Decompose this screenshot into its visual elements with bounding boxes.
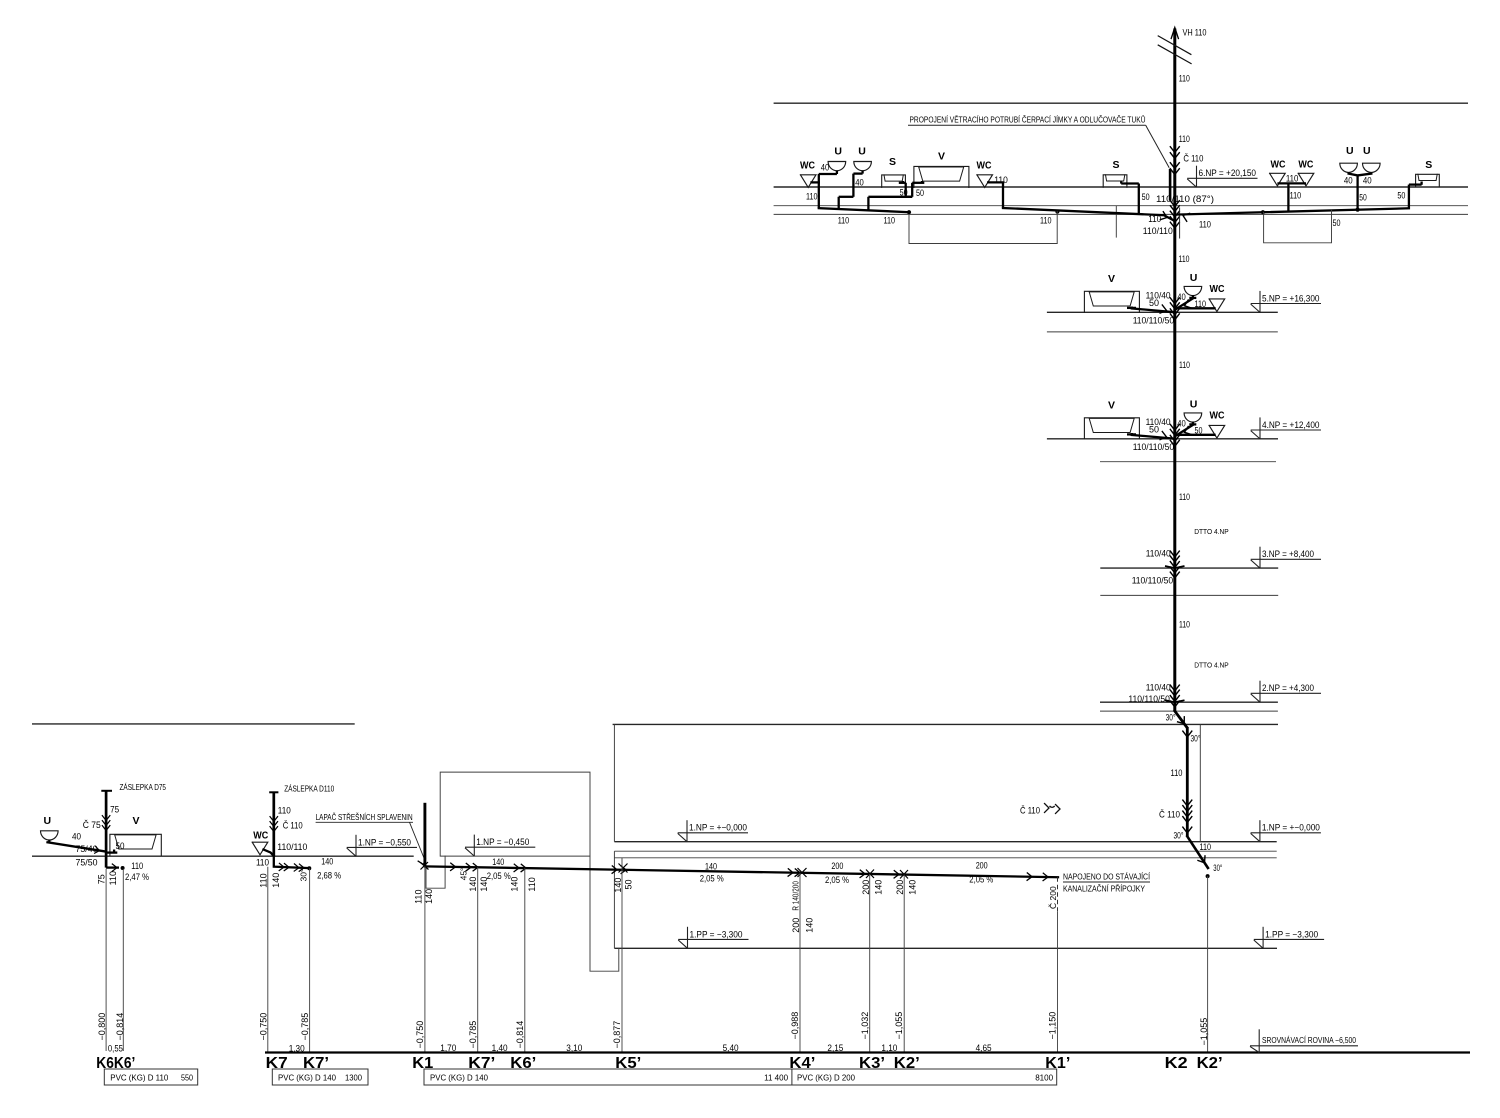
dim line K4': [799, 873, 801, 1053]
stack 30deg offset lower: [1187, 836, 1208, 868]
svg-text:40: 40: [821, 163, 830, 173]
note PROPOJENI leader: [908, 125, 1169, 168]
svg-text:110: 110: [108, 871, 118, 885]
fixture WC2 6.NP: [977, 160, 993, 187]
svg-text:30°: 30°: [1166, 713, 1176, 723]
svg-text:110: 110: [1195, 299, 1207, 309]
pipe U2 drain: [839, 171, 863, 209]
svg-text:2,15: 2,15: [827, 1043, 843, 1053]
level marker 1.NP right: [1251, 820, 1321, 842]
floor 1.NP top line: [614, 841, 1276, 843]
ceiling line 1.NP right: [613, 723, 1278, 725]
svg-text:110: 110: [1179, 620, 1190, 630]
junction dot K7': [307, 866, 311, 870]
svg-text:3,10: 3,10: [566, 1043, 582, 1053]
svg-text:−1,032: −1,032: [860, 1012, 870, 1040]
floor 4.NP bottom line: [1100, 461, 1276, 463]
svg-text:8100: 8100: [1035, 1073, 1053, 1083]
pipe S2 drain: [1409, 182, 1422, 209]
svg-text:NAPOJENO DO STÁVAJÍCÍ: NAPOJENO DO STÁVAJÍCÍ: [1063, 873, 1151, 882]
svg-text:110/110/50: 110/110/50: [1132, 576, 1174, 586]
fixture WC K7: [252, 831, 268, 855]
svg-text:2,05 %: 2,05 %: [700, 874, 724, 884]
svg-text:2,05 %: 2,05 %: [825, 875, 849, 885]
svg-text:110/40: 110/40: [1146, 682, 1171, 692]
svg-text:V: V: [133, 815, 140, 827]
note LAPAC text: [316, 813, 424, 858]
level marker 1.NP mid: [678, 820, 748, 842]
collector 6.NP left b: [1003, 208, 1174, 221]
floor 6.NP mid line: [774, 205, 1468, 207]
svg-text:110/110/50: 110/110/50: [1133, 442, 1175, 452]
svg-text:50: 50: [1397, 190, 1405, 200]
svg-text:200: 200: [791, 918, 801, 933]
dim line K6': [122, 869, 124, 1051]
svg-text:Č 110: Č 110: [1159, 809, 1180, 819]
svg-text:30°: 30°: [299, 869, 309, 882]
svg-text:2,47 %: 2,47 %: [125, 872, 149, 882]
collector 6.NP right: [1176, 208, 1409, 214]
fixture V tub K6: [110, 815, 161, 855]
stack K6: [105, 791, 108, 857]
floor 1.NP mid line: [614, 850, 1276, 852]
svg-text:50: 50: [1149, 425, 1159, 435]
floor 6.NP top line: [774, 186, 1468, 188]
collector 6.NP left a: [819, 208, 909, 212]
thin drop line 6NP: [1021, 214, 1023, 243]
svg-text:2.NP = +4,300: 2.NP = +4,300: [1262, 683, 1314, 693]
arrow offset lower: [1198, 856, 1205, 863]
pipe S1 drain: [899, 181, 906, 197]
svg-text:U: U: [1363, 145, 1371, 157]
svg-text:V: V: [1108, 273, 1115, 285]
box PVC K6: [104, 1069, 197, 1085]
dashed line K1': [1057, 877, 1059, 912]
level marker 1.NP -0550: [347, 835, 417, 857]
svg-text:WC: WC: [977, 160, 992, 171]
svg-text:−0,750: −0,750: [259, 1013, 269, 1041]
svg-text:110: 110: [1171, 768, 1183, 778]
fixture WC1 6.NP: [800, 160, 816, 187]
svg-text:110: 110: [884, 216, 896, 226]
pipe S3 drain: [1121, 182, 1139, 214]
fixture V tub 5.NP: [1084, 273, 1139, 312]
junction dot right1: [1261, 210, 1265, 214]
dim line K7': [309, 868, 311, 1052]
arrow below offset: [1183, 731, 1192, 737]
floor 1.NP bottom line: [614, 857, 1276, 859]
svg-text:1,40: 1,40: [492, 1043, 508, 1053]
svg-text:110: 110: [527, 877, 537, 891]
svg-text:2,05 %: 2,05 %: [969, 875, 993, 885]
fixture U2 6.NP: [854, 146, 872, 171]
svg-text:75: 75: [110, 805, 119, 815]
cap K6 top: [101, 790, 112, 792]
svg-text:−1,150: −1,150: [1048, 1012, 1058, 1040]
svg-text:PVC (KG) D 110: PVC (KG) D 110: [110, 1073, 168, 1083]
arrows K5' junction: [612, 864, 627, 874]
svg-text:U: U: [1346, 145, 1354, 157]
svg-text:ZÁSLEPKA D75: ZÁSLEPKA D75: [120, 783, 167, 792]
svg-text:ZÁSLEPKA D110: ZÁSLEPKA D110: [284, 785, 335, 794]
level marker 2.NP: [1251, 681, 1321, 703]
fixture WC4 6.NP: [1298, 160, 1314, 186]
pipe U drain 5.NP: [1176, 295, 1196, 309]
stack 30deg offset upper: [1175, 711, 1187, 727]
svg-text:1300: 1300: [345, 1073, 362, 1083]
svg-text:1.PP = −3,300: 1.PP = −3,300: [690, 929, 743, 939]
svg-text:PROPOJENÍ VĚTRACÍHO POTRUBÍ ČE: PROPOJENÍ VĚTRACÍHO POTRUBÍ ČERPACÍ JÍMK…: [910, 114, 1146, 125]
svg-text:30°: 30°: [1191, 733, 1201, 743]
svg-text:3.NP = +8,400: 3.NP = +8,400: [1262, 549, 1314, 559]
svg-text:110/110 (87°): 110/110 (87°): [1156, 194, 1214, 204]
svg-text:50: 50: [1149, 298, 1159, 308]
svg-text:30°: 30°: [1213, 863, 1222, 873]
pipe U K6 drain: [48, 840, 106, 852]
building2 left wall lower: [613, 851, 615, 948]
svg-text:1.NP = +−0,000: 1.NP = +−0,000: [689, 823, 747, 833]
pipe WC K7 drain: [264, 850, 274, 857]
stack K7: [272, 792, 275, 856]
cleanout arrows on stack: [1170, 147, 1179, 175]
baseline: [265, 1051, 1470, 1053]
arrows K4' junction: [788, 868, 806, 877]
svg-text:Č 110: Č 110: [1183, 154, 1203, 164]
svg-text:R 140/200: R 140/200: [792, 881, 801, 911]
note NAPOJENO text: [1063, 873, 1151, 894]
svg-text:140: 140: [424, 889, 434, 904]
junction arrows 5.NP: [1160, 298, 1191, 320]
arrows K3' junction: [860, 870, 874, 879]
svg-text:Č 110: Č 110: [283, 821, 303, 831]
svg-text:−0,814: −0,814: [115, 1013, 125, 1041]
pipe U pair drain: [1349, 172, 1372, 209]
svg-text:40: 40: [1363, 176, 1372, 186]
fixture U4 6.NP: [1363, 145, 1381, 172]
stack K2 lower vertical: [1186, 728, 1189, 837]
svg-text:110/110: 110/110: [1143, 226, 1173, 236]
svg-text:30°: 30°: [1174, 831, 1184, 841]
svg-text:DTTO 4.NP: DTTO 4.NP: [1194, 661, 1229, 670]
svg-text:110: 110: [1179, 73, 1190, 83]
svg-text:550: 550: [181, 1073, 193, 1083]
level marker 4.NP: [1251, 417, 1321, 439]
arrow collector 1: [451, 863, 456, 870]
svg-text:U: U: [1190, 399, 1198, 411]
svg-text:110: 110: [131, 861, 143, 871]
svg-text:5,40: 5,40: [723, 1043, 739, 1053]
svg-text:110: 110: [1179, 360, 1190, 370]
fixture U1 6.NP: [828, 146, 846, 171]
svg-text:110/110/50: 110/110/50: [1128, 694, 1170, 704]
pipe WC drain 4.NP: [1177, 434, 1215, 436]
svg-text:1,10: 1,10: [881, 1043, 897, 1053]
arrows K6' junction: [514, 864, 526, 872]
svg-text:140: 140: [492, 857, 504, 867]
svg-text:2,05 %: 2,05 %: [487, 871, 511, 881]
svg-text:U: U: [44, 815, 52, 827]
arrows K1' end: [1027, 873, 1048, 881]
box PVC main a: [424, 1069, 792, 1085]
box PVC K7: [272, 1069, 368, 1085]
cleanout arrows lower stack: [1183, 800, 1192, 822]
svg-text:VH 110: VH 110: [1183, 28, 1207, 38]
junction arrows 4.NP: [1160, 424, 1191, 446]
junction dot rect1: [1055, 210, 1059, 214]
notch below K1: [426, 856, 445, 888]
pipe U drain 4.NP: [1176, 422, 1196, 436]
svg-text:Č 200: Č 200: [1048, 886, 1058, 909]
svg-text:140: 140: [271, 873, 281, 888]
svg-text:K2: K2: [1165, 1055, 1188, 1072]
dim line K7'2: [477, 867, 479, 1052]
svg-text:WC: WC: [1298, 160, 1313, 171]
svg-text:−0,750: −0,750: [415, 1021, 425, 1049]
svg-text:V: V: [1108, 400, 1115, 412]
fixture U3 6.NP: [1340, 145, 1358, 172]
svg-text:110: 110: [1179, 134, 1190, 144]
svg-text:DTTO 4.NP: DTTO 4.NP: [1194, 527, 1229, 536]
svg-text:110: 110: [806, 192, 818, 202]
svg-text:110: 110: [1200, 842, 1212, 852]
pipe break symbol: [1158, 36, 1192, 64]
svg-text:40: 40: [1177, 418, 1186, 428]
svg-text:−0,785: −0,785: [468, 1021, 478, 1049]
svg-text:5.NP = +16,300: 5.NP = +16,300: [1262, 293, 1320, 303]
svg-text:40: 40: [1344, 176, 1353, 186]
building2 left wall upper: [613, 724, 615, 841]
rain leader pipe K1: [423, 803, 426, 867]
floor 3.NP top line: [1100, 567, 1278, 569]
svg-text:140: 140: [468, 877, 478, 892]
svg-text:−0,800: −0,800: [97, 1013, 107, 1041]
shaft rect 6.NP left: [909, 211, 1057, 243]
svg-text:−0,988: −0,988: [790, 1012, 800, 1040]
svg-text:110/110/50: 110/110/50: [1133, 316, 1175, 326]
thin hanging line 6NP: [1115, 206, 1117, 238]
svg-text:50: 50: [116, 841, 125, 851]
pipe SV collector drop: [868, 197, 912, 211]
pipe U1 drain: [819, 171, 837, 174]
pipe WC pair drain: [1277, 183, 1306, 210]
fixture S1 6.NP: [882, 156, 906, 188]
svg-text:140: 140: [479, 877, 489, 892]
cap K7 top: [269, 791, 278, 793]
svg-text:140: 140: [705, 862, 717, 872]
svg-text:110: 110: [1286, 173, 1299, 183]
dim line K7: [267, 867, 269, 1053]
svg-text:110: 110: [994, 175, 1008, 185]
svg-text:2,68 %: 2,68 %: [317, 871, 341, 881]
svg-text:S: S: [1425, 159, 1432, 171]
svg-text:110: 110: [1199, 220, 1211, 230]
svg-text:1,70: 1,70: [440, 1043, 456, 1053]
junction dot K2 bottom: [1206, 874, 1210, 878]
fixture WC 4.NP: [1209, 410, 1225, 438]
level marker 1.PP right: [1254, 927, 1324, 949]
svg-text:140: 140: [874, 880, 884, 895]
level marker srovnavaci: [1250, 1029, 1358, 1052]
floor 2.NP top line: [1100, 701, 1278, 703]
arrows K7' junction: [466, 863, 478, 871]
pipe V K6 drain: [106, 850, 117, 853]
terrain line upper left: [32, 723, 355, 725]
svg-text:4,65: 4,65: [976, 1043, 992, 1053]
svg-text:−0,814: −0,814: [515, 1021, 525, 1049]
junction arrows 2.NP: [1165, 685, 1185, 707]
svg-text:S: S: [889, 156, 896, 168]
svg-text:WC: WC: [1210, 284, 1225, 295]
cleanout arrows K6: [102, 816, 110, 831]
svg-text:75/40: 75/40: [76, 844, 98, 854]
svg-text:K2’: K2’: [1197, 1055, 1223, 1072]
box PVC main b: [792, 1069, 1057, 1085]
fixture V tub 4.NP: [1084, 400, 1139, 439]
pipe WC1 drain: [812, 174, 819, 208]
arrows K2' junction: [894, 870, 908, 879]
fixture S2 6.NP: [1416, 159, 1440, 187]
svg-text:U: U: [1190, 272, 1198, 284]
ground line left section: [32, 855, 414, 857]
dim line K2': [1207, 876, 1209, 1052]
fixture V tub 6.NP: [914, 151, 969, 188]
svg-text:WC: WC: [1271, 160, 1286, 171]
svg-text:75: 75: [97, 874, 107, 884]
svg-text:S: S: [1113, 159, 1120, 171]
building1 outline: [440, 772, 590, 856]
pipe V drain 5.NP: [1127, 307, 1173, 313]
svg-text:1.NP = −0,550: 1.NP = −0,550: [358, 837, 411, 847]
svg-text:110/110: 110/110: [277, 842, 307, 852]
floor 5.NP bottom line: [1047, 331, 1278, 333]
dim line K6'2: [524, 868, 526, 1052]
cleanout arrows K7: [270, 817, 278, 832]
fixture S3 6.NP: [1103, 159, 1127, 187]
level marker 3.NP: [1251, 547, 1321, 569]
svg-text:6.NP = +20,150: 6.NP = +20,150: [1199, 168, 1257, 178]
collector main run: [425, 866, 1058, 877]
floor 2.NP bottom line: [1100, 710, 1278, 712]
svg-text:140: 140: [321, 856, 333, 866]
dim line K3': [869, 874, 871, 1053]
svg-text:110: 110: [259, 873, 269, 887]
floor 5.NP top line: [1047, 311, 1278, 313]
level marker 1.NP -0450: [465, 835, 535, 857]
svg-text:−1,055: −1,055: [1199, 1018, 1209, 1046]
svg-text:LAPAČ STŘEŠNÍCH SPLAVENIN: LAPAČ STŘEŠNÍCH SPLAVENIN: [316, 813, 413, 822]
svg-text:WC: WC: [1210, 410, 1225, 421]
svg-text:50: 50: [1142, 192, 1150, 202]
svg-text:110/40: 110/40: [1146, 549, 1171, 559]
svg-text:50: 50: [1359, 192, 1367, 202]
svg-text:110: 110: [414, 890, 424, 904]
svg-text:V: V: [938, 151, 945, 163]
fixture U K6: [41, 815, 59, 840]
pipe K7 below ground: [274, 857, 309, 872]
pipe K6 below ground: [106, 856, 119, 871]
svg-text:200: 200: [861, 880, 871, 895]
svg-text:40: 40: [72, 832, 81, 842]
fixture U 5.NP: [1184, 272, 1202, 296]
junction arrows 6.NP: [1160, 201, 1189, 239]
svg-text:PVC (KG) D 140: PVC (KG) D 140: [278, 1073, 336, 1083]
svg-text:200: 200: [831, 861, 843, 871]
fixture WC 5.NP: [1209, 284, 1225, 312]
level marker 5.NP: [1251, 291, 1321, 313]
pit between buildings: [590, 856, 619, 971]
svg-text:PVC (KG) D 140: PVC (KG) D 140: [430, 1073, 488, 1083]
shaft rect 6.NP right: [1264, 210, 1332, 243]
svg-text:110: 110: [1040, 216, 1052, 226]
svg-text:1.NP = −0,450: 1.NP = −0,450: [476, 837, 529, 847]
svg-text:75/50: 75/50: [76, 857, 98, 867]
svg-text:Č 75: Č 75: [83, 820, 101, 830]
floor 3.NP bottom line: [1100, 594, 1278, 596]
pipe V drain 4.NP: [1127, 433, 1173, 439]
dim line K6: [105, 869, 107, 1051]
svg-text:110: 110: [1179, 254, 1190, 264]
svg-text:140: 140: [805, 918, 815, 933]
svg-text:50: 50: [1333, 218, 1341, 228]
svg-text:11 400: 11 400: [764, 1073, 788, 1083]
floor 6.NP bottom line: [774, 213, 1468, 215]
arrow offset upper: [1178, 717, 1185, 724]
svg-text:−0,877: −0,877: [612, 1021, 622, 1049]
svg-text:140: 140: [613, 878, 623, 893]
svg-text:200: 200: [895, 880, 905, 895]
pipe V drain 6.NP: [906, 181, 925, 197]
junction dot right2: [1356, 208, 1360, 212]
svg-text:0,55: 0,55: [108, 1043, 123, 1053]
svg-text:110: 110: [1290, 190, 1302, 200]
arrow U K6: [95, 847, 100, 854]
svg-text:−1,055: −1,055: [894, 1012, 904, 1040]
cleanout bar C110: [1169, 169, 1172, 201]
svg-text:1.PP = −3,300: 1.PP = −3,300: [1265, 929, 1318, 939]
dim line K2'm: [903, 875, 905, 1053]
level marker 6.NP: [1187, 166, 1257, 188]
svg-text:140: 140: [908, 880, 918, 895]
svg-text:1.NP = +−0,000: 1.NP = +−0,000: [1262, 823, 1320, 833]
svg-text:U: U: [834, 146, 842, 158]
junction dot left: [907, 210, 911, 214]
arrow K1 node: [418, 859, 428, 870]
svg-text:40: 40: [855, 177, 864, 187]
svg-text:−0,785: −0,785: [300, 1013, 310, 1041]
svg-text:SROVNÁVACÍ ROVINA −6,500: SROVNÁVACÍ ROVINA −6,500: [1262, 1035, 1356, 1045]
pipe WC2 drain: [988, 182, 1003, 208]
junction arrows 3.NP: [1165, 551, 1185, 578]
junction dot K6': [121, 866, 125, 870]
fixture WC3 6.NP: [1270, 160, 1286, 186]
svg-text:50: 50: [624, 879, 634, 889]
dim line K1: [424, 866, 426, 1052]
svg-text:200: 200: [976, 861, 988, 871]
svg-text:110: 110: [838, 216, 850, 226]
svg-text:4.NP = +12,400: 4.NP = +12,400: [1262, 420, 1320, 430]
svg-text:140: 140: [510, 877, 520, 892]
svg-text:WC: WC: [800, 160, 815, 171]
svg-text:50: 50: [916, 188, 924, 198]
svg-text:40: 40: [1177, 292, 1186, 302]
label C110 symbol mid: [1020, 804, 1060, 816]
svg-text:WC: WC: [253, 831, 268, 842]
level marker 1.PP mid: [678, 927, 748, 949]
svg-text:50: 50: [1195, 426, 1203, 436]
floor 1.PP line: [614, 947, 1277, 949]
vent stack VH 110 top arrow: [1171, 28, 1178, 39]
guide line right of stack: [1199, 724, 1201, 841]
